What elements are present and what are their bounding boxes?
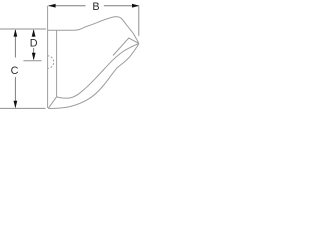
dimension D arrow down: [32, 53, 36, 60]
hole center line: [23, 60, 41, 62]
bottom extension line: [0, 107, 46, 109]
part: left edge of column (extends up to B dimension): [47, 6, 49, 108]
dimension C line: [14, 30, 16, 108]
part: top silhouette curve (hump to tip): [48, 17, 139, 44]
part: tip fold (curled end): [113, 38, 139, 56]
extension line right (tip): [138, 6, 140, 36]
hidden hole: dashed semicircle: [47, 56, 53, 69]
dimension B arrow right: [132, 4, 139, 8]
part: upper J curve (inner edge): [57, 44, 139, 99]
dimension B line: [49, 5, 139, 7]
part: bottom corner cut: [48, 97, 56, 109]
svg-text:D: D: [30, 37, 38, 49]
svg-text:B: B: [92, 1, 99, 13]
dimension B arrow left: [48, 4, 55, 8]
part: right edge of column: [56, 30, 58, 97]
svg-text:C: C: [11, 65, 19, 77]
dimension D line: [33, 30, 35, 59]
dimension C arrow down: [14, 101, 18, 108]
top extension line left: [0, 28, 46, 30]
dimension C arrow up: [14, 29, 18, 36]
part: lower J curve (outer edge): [48, 44, 139, 108]
dimension D arrow up: [32, 29, 36, 36]
